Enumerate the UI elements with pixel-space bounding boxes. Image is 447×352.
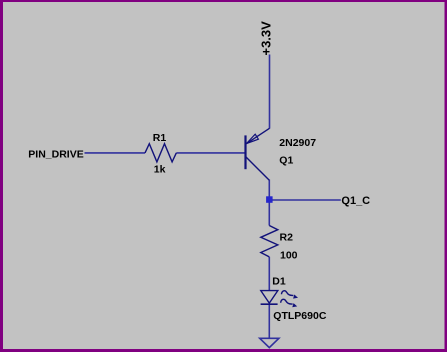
- light arrow 2: [281, 299, 293, 304]
- LED D1: [261, 291, 298, 308]
- light arrow 1: [281, 291, 293, 296]
- svg-text:+3.3V: +3.3V: [259, 21, 274, 56]
- ground: [260, 338, 279, 347]
- wire R2 to D1: [268, 257, 270, 291]
- svg-text:PIN_DRIVE: PIN_DRIVE: [28, 148, 83, 160]
- wire junction to Q1_C: [269, 199, 341, 201]
- resistor R2: [261, 226, 278, 257]
- svg-text:1k: 1k: [154, 164, 166, 176]
- svg-text:Q1_C: Q1_C: [341, 195, 370, 207]
- wire R1 to Q1 base: [176, 152, 244, 154]
- svg-text:R1: R1: [153, 132, 167, 144]
- wire junction to R2: [268, 200, 270, 226]
- collector segment: [246, 157, 269, 180]
- resistor R1: [145, 144, 176, 162]
- transistor Q1: [246, 128, 270, 180]
- wire Q1 collector to junction: [268, 180, 270, 201]
- cathode bar: [261, 303, 278, 305]
- diode triangle: [261, 291, 278, 304]
- svg-text:Q1: Q1: [279, 154, 293, 166]
- emitter segment: [246, 128, 269, 143]
- wire D1 to ground: [268, 304, 270, 338]
- emitter arrowhead: [246, 134, 258, 143]
- svg-text:2N2907: 2N2907: [279, 137, 316, 149]
- wire +3.3V to Q1 emitter: [269, 55, 271, 129]
- node junction dot: [266, 196, 273, 203]
- base bar: [244, 135, 246, 169]
- svg-text:QTLP690C: QTLP690C: [273, 310, 327, 322]
- svg-text:R2: R2: [280, 231, 294, 243]
- wire PIN_DRIVE to R1: [85, 152, 146, 154]
- svg-text:100: 100: [280, 250, 298, 262]
- svg-text:D1: D1: [272, 276, 286, 288]
